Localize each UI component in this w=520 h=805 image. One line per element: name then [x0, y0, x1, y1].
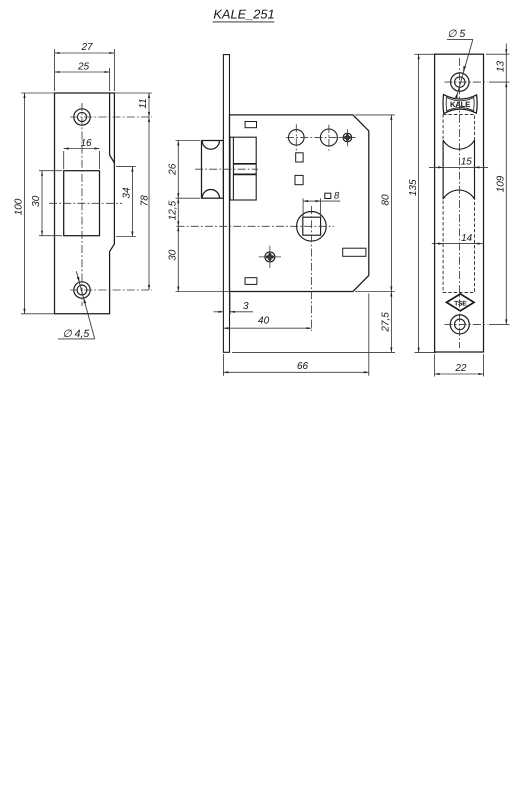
svg-text:TSE: TSE: [454, 300, 467, 307]
right slot: [343, 248, 366, 256]
leader dia 5: [456, 39, 473, 97]
svg-text:15: 15: [461, 157, 473, 168]
strike plate fold line: [110, 93, 115, 163]
centerlines middle view: [286, 136, 357, 138]
svg-text:22: 22: [454, 363, 467, 374]
dim 3: [214, 311, 224, 313]
dim 78: [148, 117, 150, 290]
dim 15: [429, 166, 488, 168]
svg-text:11: 11: [138, 98, 149, 108]
extension lines left view: [21, 92, 55, 94]
svg-text:25: 25: [77, 62, 90, 73]
svg-text:12,5: 12,5: [168, 200, 179, 220]
strike plate bottom screw hole: [74, 282, 90, 298]
centerline vertical strike plate: [81, 103, 83, 306]
screw boss top: [343, 133, 352, 142]
faceplate front outline: [435, 54, 484, 352]
small rect B: [295, 175, 303, 184]
svg-text:KALE_251: KALE_251: [213, 6, 274, 21]
svg-text:14: 14: [461, 233, 473, 244]
centerline bottom hole: [70, 289, 152, 291]
svg-text:∅ 4,5: ∅ 4,5: [63, 328, 90, 340]
svg-text:16: 16: [80, 138, 92, 149]
small rect A: [296, 153, 303, 162]
svg-text:27,5: 27,5: [381, 312, 392, 333]
latch tail: [230, 137, 256, 200]
hidden mortise rectangle: [443, 115, 474, 293]
strike plate rectangular hole: [64, 171, 100, 236]
svg-text:13: 13: [496, 61, 507, 73]
screw boss middle: [265, 252, 275, 262]
svg-text:30: 30: [168, 249, 179, 261]
svg-text:8: 8: [334, 191, 340, 202]
leader dia 4,5: [76, 271, 94, 339]
latch head top arc: [202, 141, 219, 150]
dim 12,5: [177, 198, 179, 226]
TSE diamond logo: [447, 294, 475, 311]
latch bolt head: [202, 141, 224, 199]
latch opening: [442, 140, 444, 199]
dim 16: [64, 148, 100, 150]
circle hole 1: [289, 130, 305, 146]
svg-text:100: 100: [14, 198, 25, 215]
svg-text:80: 80: [381, 194, 392, 206]
dim 40: [223, 327, 311, 329]
dim 11: [148, 93, 150, 117]
dim 100: [24, 93, 26, 314]
centerline top hole right: [445, 81, 488, 83]
svg-text:66: 66: [297, 361, 309, 372]
circle hole 2: [320, 129, 337, 146]
centerline top hole: [70, 116, 152, 118]
extension lines middle view: [176, 140, 201, 142]
svg-text:30: 30: [31, 195, 42, 207]
spindle follower circle: [297, 212, 327, 242]
svg-text:3: 3: [243, 301, 249, 312]
dim 14: [432, 243, 484, 245]
dim 66: [223, 371, 368, 373]
dim 80: [390, 115, 392, 292]
svg-text:34: 34: [122, 187, 133, 199]
latch spring lines: [233, 163, 256, 165]
dim 27,5: [390, 292, 392, 353]
dim 135: [418, 54, 420, 352]
svg-text:40: 40: [258, 315, 270, 326]
centerline rect hole: [49, 202, 122, 204]
svg-text:27: 27: [80, 42, 93, 53]
bottom slot: [245, 278, 257, 285]
dim 109: [505, 319, 507, 324]
dim 34: [131, 167, 133, 237]
dim 27: [55, 52, 115, 54]
extension lines right view: [486, 53, 510, 55]
centerline bottom hole right: [445, 323, 488, 325]
svg-text:26: 26: [168, 163, 179, 176]
faceplate top hole: [451, 73, 469, 91]
dim 8 square: [303, 200, 340, 202]
svg-text:KALE: KALE: [450, 100, 470, 109]
dim 25: [55, 71, 110, 73]
strike plate top screw hole: [74, 109, 90, 125]
KALE logo: [443, 95, 477, 114]
centerline faceplate vertical: [459, 58, 461, 348]
svg-text:78: 78: [140, 195, 151, 207]
dim 30: [41, 171, 43, 236]
dim 26: [177, 141, 179, 199]
spindle square 8mm: [303, 217, 321, 235]
latch head bottom arc: [202, 189, 219, 198]
dim 13: [505, 44, 507, 325]
dim 22: [435, 373, 484, 375]
svg-text:135: 135: [408, 179, 419, 196]
strike plate outline: [55, 93, 115, 314]
lock body outline: [230, 115, 369, 292]
faceplate bottom hole: [450, 315, 469, 334]
svg-text:∅ 5: ∅ 5: [447, 28, 465, 40]
svg-text:109: 109: [496, 175, 507, 192]
faceplate bar (side): [223, 55, 229, 353]
dim 30 middle: [177, 226, 179, 291]
top slot: [245, 122, 256, 128]
